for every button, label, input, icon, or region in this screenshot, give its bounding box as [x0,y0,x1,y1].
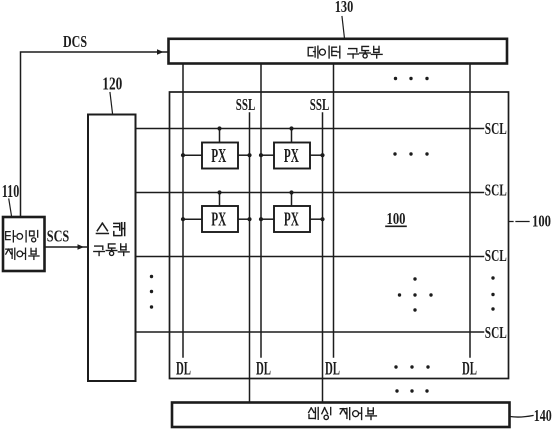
svg-text:100: 100 [532,211,551,230]
svg-text:PX: PX [284,208,299,230]
svg-text:DL: DL [256,359,271,379]
svg-text:120: 120 [102,74,122,94]
svg-text:DL: DL [325,359,340,379]
svg-text:DL: DL [176,359,191,379]
svg-text:SSL: SSL [310,95,330,114]
svg-text:DL: DL [462,359,477,379]
svg-text:DCS: DCS [63,32,87,51]
svg-text:110: 110 [2,181,20,201]
svg-text:SSL: SSL [236,95,256,114]
svg-text:SCL: SCL [485,181,507,200]
svg-text:SCS: SCS [47,226,70,245]
svg-text:SCL: SCL [485,323,507,342]
svg-text:SCL: SCL [485,246,507,265]
svg-text:SCL: SCL [485,119,507,138]
svg-text:PX: PX [211,145,226,167]
svg-text:PX: PX [284,145,299,167]
svg-text:140: 140 [534,406,552,425]
svg-text:130: 130 [335,0,354,16]
svg-text:100: 100 [387,209,406,228]
svg-text:PX: PX [211,208,226,230]
